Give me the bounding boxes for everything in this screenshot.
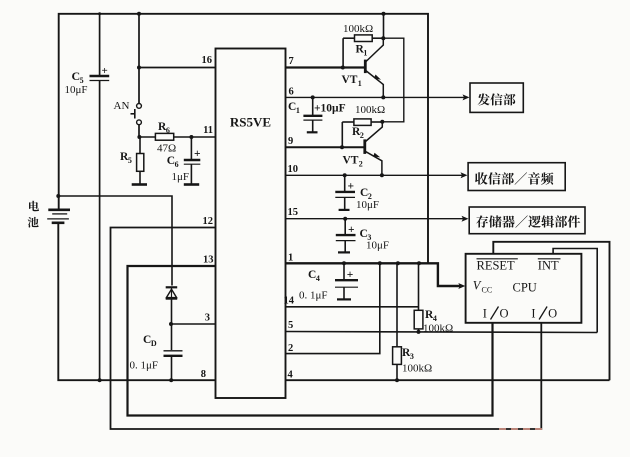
svg-text:O: O — [548, 307, 557, 321]
svg-text:13: 13 — [203, 255, 214, 266]
wire R2 left to base — [341, 122, 343, 147]
svg-text:4: 4 — [316, 274, 320, 283]
wire C5 branch — [99, 14, 101, 76]
box CPU U2 — [466, 254, 582, 323]
node pin15 C3 junction — [343, 217, 347, 221]
svg-text:3: 3 — [410, 352, 414, 361]
transistor VT1 — [364, 60, 367, 74]
label 收信部/音频 — [475, 172, 488, 184]
svg-text:6: 6 — [289, 87, 294, 98]
svg-text:12: 12 — [203, 216, 214, 227]
svg-text:11: 11 — [203, 125, 213, 136]
node R3 bottom junction — [395, 378, 399, 382]
resistor R5 — [139, 137, 141, 154]
resistor R3 — [396, 263, 398, 347]
wire pin 1 VDD line to CPU VCC — [286, 263, 463, 286]
switch AN pushbutton — [137, 104, 142, 109]
svg-text:I: I — [483, 307, 487, 321]
arrow into memory box — [462, 216, 469, 222]
svg-text:1: 1 — [288, 253, 293, 264]
capacitor CD — [164, 350, 183, 352]
node pin6 C1 junction — [311, 95, 315, 99]
svg-text:5: 5 — [128, 156, 132, 165]
wire INT pullup riser — [553, 249, 597, 333]
node top rail AN junction — [137, 12, 141, 16]
svg-text:100kΩ: 100kΩ — [343, 23, 373, 35]
wire battery bottom to ground bus — [58, 224, 215, 381]
node VDD R3 junction — [396, 261, 400, 265]
svg-text:1: 1 — [358, 79, 362, 88]
svg-text:CC: CC — [482, 286, 493, 295]
node R6 right C6 junction — [189, 135, 193, 139]
node ground bus CD junction — [169, 378, 173, 382]
svg-text:2: 2 — [360, 131, 364, 140]
label 发信部 — [478, 93, 490, 105]
node R2 right junction — [380, 120, 384, 124]
svg-text:AN: AN — [114, 100, 130, 112]
wire pin 13 to CPU IO1 bus — [128, 266, 493, 416]
node R1 base junction — [341, 66, 345, 70]
svg-text:RS5VE: RS5VE — [230, 115, 271, 130]
svg-text:+10μF: +10μF — [314, 103, 346, 115]
node ground bus C5 junction — [98, 378, 102, 382]
wire top supply rail — [59, 14, 428, 263]
svg-text:1: 1 — [363, 49, 367, 58]
svg-text:VT: VT — [342, 74, 358, 86]
svg-text:14: 14 — [284, 296, 295, 307]
resistor R4 — [418, 263, 420, 310]
wire R1 left to base — [342, 38, 344, 67]
svg-text:+: + — [102, 65, 108, 77]
svg-text:10μF: 10μF — [356, 199, 379, 211]
svg-text:1μF: 1μF — [172, 171, 190, 183]
svg-text:2: 2 — [288, 343, 293, 354]
svg-text:16: 16 — [202, 55, 213, 66]
capacitor C6 — [190, 137, 192, 159]
wire pin 4 ground line — [286, 379, 610, 381]
box memory 存储器/逻辑部件 — [469, 207, 585, 234]
svg-text:7: 7 — [289, 56, 294, 67]
svg-text:100kΩ: 100kΩ — [355, 104, 385, 116]
wire pin 3 — [171, 323, 216, 325]
node R1 right junction — [381, 36, 385, 40]
capacitor C4 — [343, 263, 345, 279]
node VDD pin2 junction — [378, 261, 382, 265]
node R4 bottom junction — [417, 330, 421, 334]
svg-text:2: 2 — [359, 160, 363, 169]
wire battery plus to diode — [58, 196, 172, 286]
battery B1 — [48, 209, 70, 212]
wire pin 9 base VT2 — [286, 146, 365, 148]
svg-text:+: + — [348, 224, 355, 236]
node top rail C5 junction — [98, 12, 101, 15]
red watermark dashes on IO2 bus — [499, 428, 543, 430]
svg-text:6: 6 — [175, 160, 179, 169]
node R6 left junction — [137, 135, 141, 139]
svg-text:VT: VT — [343, 155, 359, 167]
svg-text:9: 9 — [288, 136, 293, 147]
svg-text:100kΩ: 100kΩ — [402, 363, 432, 375]
box transmit 发信部 — [470, 83, 523, 112]
svg-text:RESET: RESET — [477, 258, 516, 272]
wire AN branch — [138, 14, 140, 104]
svg-text:100kΩ: 100kΩ — [423, 323, 453, 335]
svg-text:INT: INT — [538, 258, 559, 272]
wire pin 7 base VT1 — [286, 66, 366, 68]
svg-text:6: 6 — [166, 126, 170, 135]
resistor R6 — [155, 133, 173, 140]
svg-text:5: 5 — [288, 320, 293, 331]
wire pin 14 — [286, 306, 419, 308]
wire pin 5 R4 INT line — [286, 332, 598, 333]
svg-text:+: + — [347, 269, 354, 281]
svg-text:+: + — [348, 181, 355, 193]
node VDD C4 junction — [342, 261, 346, 265]
capacitor C3 — [344, 219, 346, 235]
resistor R2 — [342, 121, 354, 123]
svg-text:10μF: 10μF — [65, 84, 88, 96]
capacitor C5 — [90, 75, 110, 77]
wire R1 right to top rail — [383, 14, 385, 38]
svg-text:15: 15 — [288, 207, 299, 218]
svg-text:I: I — [531, 307, 535, 321]
wire pin 16 — [139, 67, 216, 69]
wire pin 6 to transmit box — [286, 96, 467, 98]
label 存储器/逻辑部件 — [476, 215, 488, 227]
svg-text:0. 1μF: 0. 1μF — [130, 360, 159, 372]
wire pin 15 to memory box — [286, 218, 466, 220]
svg-text:10: 10 — [288, 164, 299, 175]
node battery plus junction — [56, 194, 60, 198]
svg-text:3: 3 — [205, 313, 210, 324]
node pin16 AN junction — [137, 66, 141, 70]
resistor R1 — [343, 37, 354, 39]
wire pin 2 to VDD — [286, 263, 380, 353]
diode D1 — [166, 286, 178, 288]
svg-text:47Ω: 47Ω — [157, 143, 176, 155]
label battery 电池 — [29, 201, 39, 211]
arrow into receive box — [461, 172, 468, 178]
wire RESET riser — [493, 242, 609, 380]
op-amp U1 RS5VE IC body — [216, 49, 286, 399]
svg-text:O: O — [500, 307, 509, 321]
svg-text:1: 1 — [296, 106, 300, 115]
transistor VT2 — [363, 139, 366, 154]
node pin6 VT1 emitter junction — [381, 95, 385, 99]
node pin10 VT2 emitter junction — [380, 173, 384, 177]
wire R1 to R2 connector — [382, 38, 404, 122]
box receive 收信部/音频 — [468, 163, 565, 191]
node VDD R4 junction — [417, 261, 421, 265]
node diode CD pin3 junction — [169, 322, 173, 326]
svg-text:0. 1μF: 0. 1μF — [299, 290, 328, 302]
wire pin 12 to CPU IO2 bus — [111, 228, 542, 430]
node pin10 C2 junction — [343, 173, 347, 177]
svg-text:+: + — [194, 148, 201, 160]
wire diode to pin3 and CD — [171, 300, 173, 351]
node top rail R1 junction — [382, 12, 386, 16]
svg-text:D: D — [151, 339, 157, 348]
capacitor C1 — [312, 97, 314, 115]
node R2 base junction — [340, 145, 344, 149]
wire pin 11 — [139, 136, 155, 138]
arrow into transmit box — [463, 94, 470, 100]
arrow into CPU VCC — [458, 283, 465, 289]
svg-text:CPU: CPU — [513, 281, 537, 295]
capacitor C2 — [344, 175, 346, 191]
svg-text:10μF: 10μF — [366, 240, 389, 252]
wire pin 10 to receive box — [286, 174, 465, 176]
svg-text:4: 4 — [288, 370, 294, 381]
svg-text:8: 8 — [201, 369, 206, 380]
